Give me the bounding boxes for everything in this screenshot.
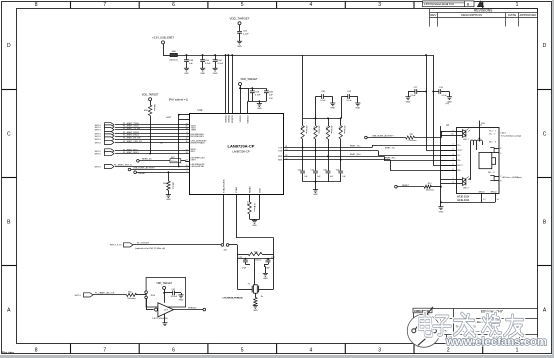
connector J4 body ARJE-0024 [457, 125, 500, 202]
wire VDDIO branch to bypass caps [239, 87, 266, 101]
sheet-entry flag PL_ENET_TXD1 (SHT 4) [95, 125, 140, 129]
IC U12 LAN8720A-CP body [190, 108, 284, 195]
svg-text:49.9ohm: 49.9ohm [343, 126, 345, 134]
svg-text:3: 3 [378, 2, 381, 8]
svg-text:+3.3V_USB_ENET: +3.3V_USB_ENET [152, 36, 174, 40]
svg-text:D: D [543, 43, 547, 49]
wire shield ground rail [440, 201, 495, 203]
wire ENET_TX- row [284, 147, 457, 155]
LED1 (yellow) inside J4 [457, 128, 471, 141]
wire XTAL2 to jumper J24 [223, 195, 225, 244]
wire USB_BLINK_ACTIVITY to IC LED1 [131, 169, 189, 171]
svg-text:TD+ ~ 1: TD+ ~ 1 [489, 131, 496, 133]
svg-text:ENET_TX+: ENET_TX+ [350, 145, 361, 147]
svg-text:4: 4 [452, 159, 453, 161]
svg-text:GND: GND [237, 46, 242, 48]
connector J4 left bus [441, 123, 450, 207]
svg-text:5: 5 [500, 153, 501, 155]
wire center to crystal [254, 259, 256, 285]
svg-text:GND: GND [184, 73, 189, 75]
ground (crystal caps) [263, 273, 268, 280]
wire PL_ENET_MDIO [115, 153, 189, 155]
svg-text:REV: REV [430, 13, 436, 17]
svg-text:VDD_TARGET: VDD_TARGET [156, 282, 172, 285]
resistor crystal case series [254, 298, 257, 306]
wire PL_ENET_RX_ER [115, 139, 189, 141]
svg-text:4: 4 [310, 2, 313, 8]
wire lower caps common rail [303, 181, 341, 190]
svg-text:ENET_TX-: ENET_TX- [385, 147, 395, 149]
resistor R47 2.2Kohms [406, 134, 417, 142]
svg-text:0.1uF: 0.1uF [410, 95, 416, 97]
sheet-entry flag PL_ENET_RST_N (SHT 4) [95, 164, 133, 168]
IC U12 left pin numbers [185, 123, 187, 172]
svg-text:5: 5 [241, 2, 244, 8]
svg-text:LED1: LED1 [501, 133, 507, 135]
wire VDD to C62 [164, 292, 172, 294]
svg-text:GND: GND [200, 73, 205, 75]
svg-text:D: D [7, 43, 11, 49]
svg-text:6: 6 [172, 348, 175, 354]
svg-text:VDD_TARGET: VDD_TARGET [230, 17, 250, 21]
capacitor C62 0.01uF [171, 289, 182, 298]
ground (C58) [213, 68, 218, 75]
wire R16 to signal row [327, 139, 329, 157]
svg-text:GND: GND [260, 188, 262, 193]
svg-text:7: 7 [452, 178, 453, 180]
svg-text:Rs: Rs [261, 296, 263, 298]
ground (crystal case) [253, 306, 258, 313]
svg-text:C: C [543, 132, 547, 138]
wire VDD center-tap feed 1 [425, 54, 456, 150]
svg-text:nRST: nRST [191, 160, 197, 162]
watermark elecfans logo [419, 314, 547, 349]
ground (C59/C60) [257, 104, 262, 111]
resistor R22 50ohms [248, 252, 262, 256]
sheet-entry flag PL_ENET_RXD0 (SHT 4) [95, 131, 140, 135]
svg-text:10Kohm: 10Kohm [172, 182, 174, 189]
capacitor C37 0.1uF [408, 87, 427, 97]
resistor R09 10Kohm [163, 181, 173, 190]
resistor R08 10Kohm pull-up with VDD_TARGET [142, 93, 159, 154]
wire crystal rail upper with R22 [237, 254, 273, 256]
svg-text:230ohms: 230ohms [169, 59, 179, 61]
svg-text:XTAL2/CLKIN: XTAL2/CLKIN [223, 179, 226, 193]
svg-text:SHT 4: SHT 4 [95, 130, 102, 132]
svg-text:6: 6 [452, 169, 453, 171]
svg-text:6: 6 [172, 2, 175, 8]
wire PL_CLKOUT to J24 [133, 244, 221, 246]
svg-text:C39: C39 [323, 170, 326, 172]
svg-text:SHT 4: SHT 4 [95, 154, 102, 156]
jumper J24 [221, 244, 229, 252]
resistor R16 49.9ohm [325, 117, 332, 139]
ground (R09) [166, 195, 171, 202]
svg-text:8: 8 [500, 181, 501, 183]
svg-text:ARJE-0024: ARJE-0024 [457, 199, 470, 202]
wire inverter ground stub [164, 314, 166, 323]
svg-text:1: 1 [516, 2, 519, 8]
border row ticks left and right [2, 90, 552, 266]
svg-text:LED 2: LED 2 [463, 188, 469, 190]
svg-text:TXEN: TXEN [191, 130, 197, 132]
wire PL_ENET_RXD0 [115, 133, 189, 135]
svg-text:SHT 4: SHT 4 [75, 295, 82, 297]
svg-text:NC: NC [160, 143, 164, 145]
wire R09 to ground [168, 190, 170, 194]
svg-text:SHT 4: SHT 4 [95, 139, 102, 141]
ground (C44) [355, 103, 360, 110]
svg-text:74LVC1G04DW: 74LVC1G04DW [152, 318, 168, 320]
wire ENET_RX- row [284, 158, 457, 171]
wire RESET to IC LED2 [136, 171, 189, 173]
svg-text:TD-: TD- [457, 155, 461, 157]
svg-text:GND: GND [406, 101, 411, 103]
svg-text:XRESdrv: XRESdrv [188, 306, 198, 309]
wire PL_ENET_TX_EN [115, 129, 189, 131]
wire R14 to signal row [302, 139, 304, 148]
revisions table text [430, 9, 537, 18]
wire bypass bottom bar [248, 100, 267, 113]
svg-text:R09: R09 [163, 183, 166, 185]
svg-text:3: 3 [452, 154, 453, 156]
svg-text:5: 5 [452, 164, 453, 166]
svg-text:4: 4 [310, 348, 313, 354]
resistor R14 49.9ohm [300, 118, 307, 139]
document header box top-right [423, 1, 475, 7]
wire crystal case pin [255, 293, 257, 297]
capacitor C39 1uF [323, 156, 334, 181]
power VDD_TARGET (inverter) [156, 282, 172, 303]
ground (C38) [330, 103, 335, 110]
wire 3.3V rail to caps and IC [178, 55, 434, 57]
svg-text:GND: GND [330, 108, 335, 110]
wire PL_ENET_RST_N to IC [115, 166, 189, 168]
svg-text:1uF: 1uF [269, 95, 273, 97]
svg-text:LED2/nINTSEL: LED2/nINTSEL [191, 166, 206, 168]
inverter gate U13 74LVC1G04DW [152, 303, 174, 320]
svg-text:VDD1A: VDD1A [225, 115, 228, 123]
node NEED_4D / mode strap [137, 159, 152, 163]
svg-text:0.1uF: 0.1uF [218, 63, 224, 65]
svg-text:LAN8720A-CP: LAN8720A-CP [228, 144, 255, 149]
ground (J4 shield) [438, 207, 443, 214]
wire ENET_RX+ row [284, 154, 457, 160]
capacitor C40 1uF [298, 148, 309, 182]
svg-text:VDD_TARGET: VDD_TARGET [240, 77, 258, 81]
wire R50 to inverter box [137, 294, 147, 296]
wire RESET to R12 [397, 186, 424, 188]
wire VDD stub into jack [479, 121, 486, 140]
node XRESdrv [203, 308, 206, 311]
wire R17 to signal row [340, 139, 342, 161]
svg-text:2.2Kohms: 2.2Kohms [407, 140, 416, 142]
svg-text:27pF: 27pF [265, 267, 270, 269]
svg-text:10Kohm: 10Kohm [171, 161, 178, 163]
svg-text:GND: GND [179, 300, 184, 302]
wire PL_ENET_TXD1 [115, 127, 189, 129]
svg-text:49.9ohm: 49.9ohm [330, 126, 332, 134]
svg-text:DESCRIPTION: DESCRIPTION [461, 13, 482, 17]
ground (AC caps) [313, 190, 318, 197]
IC U12 left pin labels [191, 126, 208, 168]
capacitor C56 0.1uF [200, 54, 211, 68]
label LED1 function [501, 133, 522, 138]
svg-text:(optional as for PHY 25 MHz cl: (optional as for PHY 25 MHz clk) [135, 247, 165, 250]
wire termination top rail [303, 118, 341, 120]
svg-text:49.9ohm: 49.9ohm [305, 126, 307, 134]
svg-text:www.elecfans.com: www.elecfans.com [445, 336, 547, 348]
wire XTAL1 to crystal [236, 195, 273, 290]
sheet-entry flag PL_ENET_CRS_DV (SHT 4) [95, 140, 143, 144]
resistor R07 10Kohm [170, 157, 181, 163]
sheet-entry flag PL_ENET_MDC (SHT 4) [95, 149, 139, 153]
wire mode strap to R07 [139, 160, 170, 162]
connector J4 left pin labels [457, 145, 463, 172]
svg-text:GND: GND [355, 108, 360, 110]
svg-text:RXP: RXP [278, 156, 283, 158]
svg-text:12.4Kohm: 12.4Kohm [253, 203, 255, 212]
svg-text:1uF: 1uF [189, 63, 193, 65]
wire 3.3V drop to termination rail [302, 55, 304, 118]
border column ticks bottom [71, 344, 483, 354]
svg-text:50ohms: 50ohms [254, 259, 261, 261]
wire flag to R50 [93, 294, 127, 296]
wire R07 to IC nINT [181, 160, 186, 162]
svg-text:4: 4 [500, 148, 501, 150]
wire PL_ENET_RXD1 [115, 136, 189, 138]
resistor R50 100ohms [127, 292, 137, 300]
ground (C49) [184, 68, 189, 75]
svg-text:U12: U12 [198, 108, 203, 112]
company circle logo [407, 307, 440, 348]
svg-text:RDCT: RDCT [457, 165, 463, 167]
wire PL_ENET_MDC [115, 150, 189, 152]
wire VDDCR to rail [232, 55, 234, 114]
sheet-entry flag PL_nBART_A3_CLK (SHT 4) [75, 291, 115, 297]
svg-text:[PHY address = 0]: [PHY address = 0] [169, 99, 188, 102]
IC U12 top pin labels [225, 115, 250, 124]
border column numbers top [35, 2, 519, 8]
svg-text:VDD_TARGET: VDD_TARGET [142, 93, 159, 96]
svg-text:0.1uF: 0.1uF [320, 100, 326, 102]
capacitor C38 0.1uF [316, 91, 333, 118]
ground (C37) [405, 97, 410, 104]
crystal Y1 25MHz CTS [222, 284, 273, 300]
svg-text:VDD: VDD [481, 123, 486, 125]
svg-text:RBIAS: RBIAS [249, 186, 252, 193]
IC U12 bottom pin labels [223, 179, 262, 193]
transformer winding hooks [471, 139, 483, 180]
svg-text:GND: GND [213, 73, 218, 75]
jumper JS10 on box edge [145, 291, 156, 299]
capacitor C60 1uF 10V [264, 91, 274, 101]
svg-text:CTS-MX38LTF0M000: CTS-MX38LTF0M000 [222, 298, 243, 300]
capacitor C42 1uF [311, 151, 322, 182]
power VDD_TARGET (VDDIO) [239, 77, 259, 113]
wire ENET_TX+ row [284, 145, 457, 147]
wire nRST net vertical [166, 114, 189, 167]
svg-text:49.9ohm: 49.9ohm [318, 126, 320, 134]
capacitor C43 0.1uF [432, 87, 449, 97]
svg-text:8: 8 [35, 348, 38, 354]
resistor R17 49.9ohm [338, 117, 345, 139]
wire 3.3V rail [163, 55, 170, 57]
wire R47 to J4 LED [415, 131, 443, 138]
svg-text:10Kohm: 10Kohm [153, 104, 155, 111]
ground (C43) [447, 97, 452, 104]
sheet-entry flag PL_CLKOUT (SHT 4, 9, 10) [110, 242, 166, 250]
svg-text:nRST: nRST [166, 117, 172, 119]
svg-text:LED-Grn = (100Mbps): LED-Grn = (100Mbps) [502, 177, 522, 179]
svg-text:3: 3 [378, 348, 381, 354]
wire J24 to crystal [229, 245, 238, 290]
svg-text:SHT 4, 9, 10: SHT 4, 9, 10 [110, 245, 122, 247]
ground (RBIAS) [252, 220, 257, 227]
sheet-entry flag PL_ENET_RXD1 (SHT 4) [95, 134, 140, 138]
ground (inverter) [162, 323, 167, 326]
svg-text:GND: GND [166, 199, 171, 201]
sheet-entry flag PL_ENET_TX_EN (SHT 4) [95, 128, 141, 132]
wire PL_ENET_TXD0 [115, 124, 189, 126]
resistor R12 330ohms [424, 183, 434, 191]
svg-text:TXN: TXN [278, 150, 283, 152]
svg-text:MDC: MDC [191, 151, 196, 153]
svg-text:SHLD2: SHLD2 [491, 191, 497, 193]
svg-text:RESET: RESET [139, 173, 147, 175]
svg-text:GND: GND [253, 310, 258, 312]
svg-text:C40: C40 [298, 170, 301, 172]
svg-text:0.1uF: 0.1uF [205, 63, 211, 65]
IC U12 right pin labels [278, 146, 287, 162]
inverter supply box outline [146, 278, 186, 308]
svg-text:VDDIO: VDDIO [240, 115, 242, 122]
svg-text:7: 7 [103, 2, 106, 8]
svg-text:SHLD1: SHLD1 [479, 191, 485, 193]
wire R15 to signal row [315, 139, 317, 151]
sheet-entry flag PL_ENET_RX_ER (SHT 4) [95, 137, 141, 141]
node RESET (right) [395, 185, 410, 188]
svg-text:0.01uF: 0.01uF [171, 296, 178, 298]
power +3.3V_USB_ENET [152, 36, 174, 55]
svg-text:9: 9 [452, 130, 453, 132]
svg-text:100ohms: 100ohms [127, 298, 135, 300]
svg-text:0.1uF: 0.1uF [441, 95, 447, 97]
resistor R10 12.4Kohm 1% [246, 202, 255, 214]
revisions table [430, 9, 538, 27]
wire inverter output XRESdrv [174, 306, 204, 309]
border row letters [7, 43, 547, 314]
svg-text:12: 12 [483, 199, 485, 201]
svg-text:C41: C41 [336, 170, 339, 172]
wire input down box edge to gate [146, 299, 154, 310]
wire PL_ENET_CRS_DV [115, 142, 189, 144]
svg-text:27pF: 27pF [242, 267, 247, 269]
title block [414, 309, 538, 344]
svg-text:C42: C42 [311, 170, 314, 172]
svg-text:14: 14 [497, 199, 499, 201]
sheet mark diamond [478, 1, 484, 6]
svg-text:330ohms: 330ohms [426, 189, 434, 191]
node USB_BLINK_ACTIVITY (right) [365, 135, 395, 139]
node USB_BLINK_ACTIVITY (left) [128, 167, 155, 171]
svg-text:GND: GND [252, 225, 257, 227]
svg-text:Yel = (link/data activity): Yel = (link/data activity) [501, 135, 522, 138]
svg-text:XTAL1: XTAL1 [235, 186, 238, 193]
svg-text:RD-: RD- [457, 170, 461, 172]
svg-text:LAN8720A-CP: LAN8720A-CP [232, 150, 249, 154]
svg-text:8: 8 [452, 182, 453, 184]
wire USB_BLINK to R47 [367, 137, 405, 139]
svg-text:GND: GND [447, 101, 452, 103]
svg-text:2: 2 [452, 149, 453, 151]
svg-text:SHT 4: SHT 4 [95, 136, 102, 138]
sheet-entry flag PL_ENET_MDIO (SHT 4) [95, 152, 140, 156]
svg-text:RD- ~ 6: RD- ~ 6 [488, 172, 495, 174]
svg-text:REVISIONS: REVISIONS [474, 9, 493, 13]
J4 right bracket pins 4/5 [490, 148, 501, 155]
capacitor C23 27pF [239, 257, 248, 269]
svg-text:RXER/PHYAD0: RXER/PHYAD0 [191, 142, 206, 145]
svg-text:TXP: TXP [278, 147, 283, 149]
svg-text:GND: GND [257, 108, 262, 110]
svg-text:RD+ ~ 3: RD+ ~ 3 [489, 141, 496, 143]
connector J4 pin stub rows [441, 130, 457, 184]
svg-text:5: 5 [241, 348, 244, 354]
wire RBIAS resistor to ground [250, 195, 260, 221]
capacitor C61 0.1uF [237, 31, 249, 42]
svg-text:SHT 4: SHT 4 [95, 166, 102, 168]
transformer core inside J4 [479, 153, 496, 169]
svg-text:Plot data: Plot data [2, 351, 14, 355]
svg-text:1: 1 [516, 348, 519, 354]
ground (C62) [178, 295, 183, 302]
title block texts [442, 310, 526, 344]
wire VDD2A to rail [228, 55, 230, 114]
border column numbers bottom [35, 348, 519, 354]
svg-text:TD- ~ 2: TD- ~ 2 [489, 134, 495, 136]
svg-text:PL_nBART_A3_CLK: PL_nBART_A3_CLK [95, 291, 115, 294]
ground (C61) [237, 41, 242, 48]
J4 right bracket pins 7/8 [488, 172, 501, 183]
svg-text:LED 1: LED 1 [463, 139, 469, 141]
capacitor C59 4.7uF [250, 91, 261, 101]
border column ticks top [71, 2, 483, 8]
svg-text:APPROVED: APPROVED [520, 13, 538, 17]
svg-text:SHT 4: SHT 4 [95, 151, 102, 153]
sheet-entry flag PL_ENET_TXD0 (SHT 4) [95, 123, 140, 127]
wire RESET pulldown branch [168, 172, 170, 181]
capacitor C49 1uF [184, 54, 194, 68]
svg-text:ENET_RX-: ENET_RX- [385, 158, 396, 160]
svg-text:4.7uF: 4.7uF [255, 95, 261, 97]
power VDD_TARGET (top center) [230, 17, 250, 31]
wire crystal rail lower [237, 259, 273, 262]
svg-text:0.1uF: 0.1uF [243, 34, 249, 36]
svg-text:SHT 4: SHT 4 [95, 127, 102, 129]
svg-text:GND: GND [313, 194, 318, 196]
svg-text:8: 8 [35, 2, 38, 8]
svg-text:RXD1/MODE1: RXD1/MODE1 [191, 136, 205, 138]
svg-text:RXN: RXN [278, 160, 283, 162]
svg-text:0.1uF: 0.1uF [346, 100, 352, 102]
wire VDD1A to rail [225, 55, 227, 114]
svg-text:10: 10 [451, 134, 453, 136]
svg-text:2: 2 [447, 348, 450, 354]
wire R12 to J4 bus [431, 186, 441, 188]
ground (C56) [200, 68, 205, 75]
capacitor C44 0.1uF [342, 91, 358, 118]
